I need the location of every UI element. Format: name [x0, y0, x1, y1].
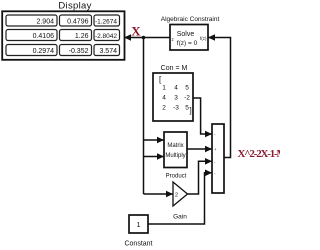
svg-text:+: +	[214, 147, 217, 152]
node X (red signal label)	[131, 24, 141, 39]
svg-text:-1.2674: -1.2674	[95, 19, 117, 26]
gain block G1 (triangle)	[173, 182, 188, 206]
wire Con=M output to sum port1	[193, 98, 212, 137]
wire z output to Display (with arrowhead into display)	[124, 34, 170, 41]
cells row 1	[6, 15, 57, 26]
op block U1: Algebraic Constraint	[170, 25, 208, 51]
svg-text:0.2974: 0.2974	[33, 48, 55, 55]
svg-text:Gain: Gain	[173, 214, 187, 221]
constant block Con = M (matrix constant)	[153, 73, 193, 121]
svg-text:1: 1	[137, 222, 141, 229]
label Algebraic Constraint	[161, 16, 220, 23]
svg-text:X^2-2X-1-M: X^2-2X-1-M	[238, 148, 281, 160]
svg-text:2: 2	[175, 193, 178, 199]
label Display (block name)	[58, 1, 91, 12]
svg-text:Solve: Solve	[177, 31, 195, 38]
svg-text:0.4106: 0.4106	[33, 33, 55, 40]
svg-text:3: 3	[174, 95, 178, 102]
svg-text:Algebraic Constraint: Algebraic Constraint	[161, 16, 220, 23]
svg-text:3.574: 3.574	[99, 48, 117, 55]
label Product	[166, 174, 187, 180]
label Con = M	[161, 65, 188, 72]
sum block S1 (vertical rectangle with signs)	[212, 124, 224, 193]
svg-text:1: 1	[162, 85, 166, 92]
svg-text:Product: Product	[166, 174, 187, 180]
svg-text:2: 2	[162, 105, 166, 112]
svg-text:2.904: 2.904	[36, 19, 54, 26]
svg-text:Con = M: Con = M	[161, 65, 188, 72]
wire X into Matrix Multiply input 2	[144, 153, 165, 160]
label Gain	[173, 214, 187, 221]
svg-text:-2.8042: -2.8042	[95, 33, 117, 40]
wire branch vertical from X wire down	[143, 38, 145, 195]
svg-text:0.4796: 0.4796	[67, 19, 89, 26]
cells row 3	[6, 45, 57, 56]
junction dot on X wire	[142, 36, 146, 40]
svg-text:f(z) = 0: f(z) = 0	[177, 40, 198, 47]
svg-text:-3: -3	[173, 105, 179, 112]
wire Matrix Multiply output to sum port2	[187, 146, 212, 153]
display block Display (3x3 matrix)	[2, 11, 124, 60]
svg-text:Constant: Constant	[124, 241, 152, 248]
svg-text:4: 4	[174, 85, 178, 92]
node X^2-2X-1-M (red expression label)	[238, 148, 288, 160]
svg-text:f(z): f(z)	[200, 36, 207, 41]
svg-text:4: 4	[162, 95, 166, 102]
label Constant	[124, 241, 152, 248]
svg-text:5: 5	[185, 85, 189, 92]
svg-text:]: ]	[190, 106, 192, 115]
product block P1: Matrix Multiply	[164, 132, 187, 168]
wire Constant output to sum port4	[148, 170, 212, 225]
wire X into Gain input	[144, 191, 174, 198]
cells row 2	[6, 30, 57, 41]
svg-text:Multiply: Multiply	[165, 153, 185, 159]
svg-text:Display: Display	[58, 1, 91, 12]
svg-text:X: X	[131, 24, 141, 39]
wire X into Matrix Multiply input 1	[144, 137, 165, 144]
svg-text:5: 5	[185, 105, 189, 112]
constant block C1 (value 1)	[129, 215, 148, 233]
svg-text:-2: -2	[184, 95, 190, 102]
svg-text:-0.352: -0.352	[69, 48, 89, 55]
svg-text:Matrix: Matrix	[167, 143, 183, 149]
svg-text:1.26: 1.26	[75, 33, 89, 40]
wire Gain output to sum port3	[188, 158, 213, 194]
wire feedback: sum output up into AC input (arrow into AC right edge)	[208, 34, 231, 157]
